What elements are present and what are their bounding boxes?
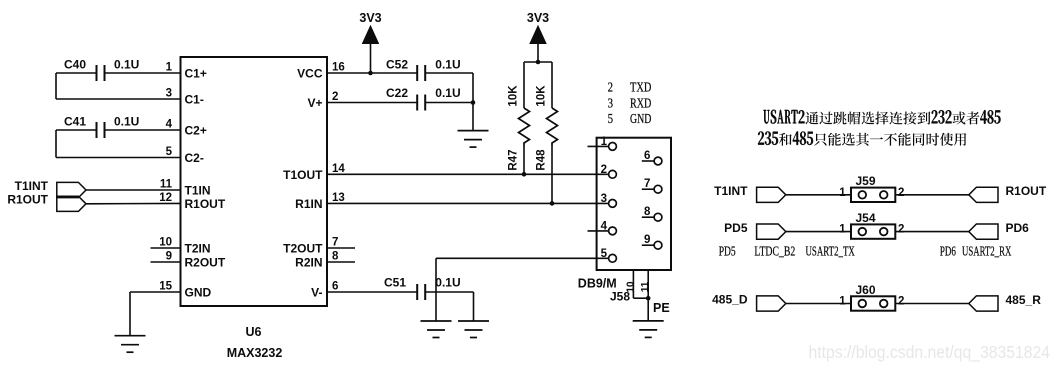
svg-text:1: 1 [166,62,173,74]
svg-text:2: 2 [608,79,613,94]
svg-text:LTDC_B2: LTDC_B2 [754,243,795,258]
svg-text:C52: C52 [386,58,408,72]
svg-text:C1+: C1+ [185,67,207,81]
svg-text:T2IN: T2IN [185,242,211,256]
svg-text:PD5: PD5 [719,243,736,258]
svg-text:C2+: C2+ [185,124,207,138]
svg-text:10: 10 [625,281,636,293]
svg-text:DB9/M: DB9/M [578,277,617,291]
svg-text:R47: R47 [508,149,520,170]
svg-text:0.1U: 0.1U [114,115,139,129]
svg-text:R1OUT: R1OUT [185,197,226,211]
svg-text:GND: GND [185,286,212,300]
svg-text:2: 2 [332,91,338,103]
svg-text:PD6: PD6 [940,243,956,258]
svg-text:7: 7 [644,178,650,190]
svg-text:14: 14 [332,163,345,175]
svg-text:PD6: PD6 [1006,221,1030,235]
svg-text:T1INT: T1INT [15,179,49,193]
svg-text:T2OUT: T2OUT [283,242,323,256]
svg-text:13: 13 [332,192,345,204]
svg-text:485_D: 485_D [712,293,748,307]
svg-text:6: 6 [644,150,650,162]
svg-text:2: 2 [898,187,904,199]
svg-text:0.1U: 0.1U [435,86,460,100]
svg-text:V+: V+ [307,96,322,110]
svg-text:U6: U6 [246,325,262,339]
svg-text:12: 12 [159,192,172,204]
svg-text:C2-: C2- [185,151,204,165]
svg-text:7: 7 [332,237,338,249]
svg-text:VCC: VCC [297,67,323,81]
svg-text:TXD: TXD [630,79,651,94]
svg-text:1: 1 [839,224,846,236]
svg-text:C41: C41 [64,115,86,129]
svg-text:3: 3 [601,193,607,205]
svg-text:3V3: 3V3 [527,11,549,25]
svg-text:8: 8 [332,251,339,263]
svg-text:C51: C51 [384,276,406,290]
svg-text:10K: 10K [508,85,520,107]
svg-text:J60: J60 [856,283,876,297]
svg-text:3: 3 [608,95,614,110]
svg-text:R2OUT: R2OUT [185,256,226,270]
svg-text:GND: GND [630,111,651,126]
svg-text:5: 5 [166,146,173,158]
svg-text:15: 15 [159,281,172,293]
svg-text:11: 11 [640,281,651,292]
svg-text:11: 11 [160,179,173,191]
svg-text:0.1U: 0.1U [114,58,139,72]
svg-text:R2IN: R2IN [295,256,322,270]
svg-text:2: 2 [601,164,607,176]
svg-text:T1INT: T1INT [714,184,748,198]
svg-text:R1OUT: R1OUT [7,193,48,207]
svg-text:J59: J59 [856,174,876,188]
svg-text:0.1U: 0.1U [435,58,460,72]
svg-text:5: 5 [608,111,614,126]
svg-text:9: 9 [166,251,172,263]
svg-text:C22: C22 [386,86,408,100]
svg-text:485_R: 485_R [1006,293,1042,307]
svg-text:9: 9 [644,234,650,246]
svg-text:RXD: RXD [630,95,651,110]
svg-text:J54: J54 [856,211,876,225]
svg-text:6: 6 [332,281,338,293]
svg-text:3: 3 [166,88,172,100]
svg-text:10K: 10K [536,85,548,107]
svg-text:USART2_TX: USART2_TX [806,243,855,258]
svg-text:PE: PE [653,301,670,315]
svg-text:2: 2 [898,224,904,236]
svg-text:0.1U: 0.1U [435,276,460,290]
svg-text:8: 8 [644,206,651,218]
svg-text:1: 1 [839,187,846,199]
svg-text:R1OUT: R1OUT [1006,184,1047,198]
svg-text:V-: V- [311,286,322,300]
svg-text:16: 16 [332,62,345,74]
svg-text:T1IN: T1IN [185,184,211,198]
svg-text:USART2_RX: USART2_RX [962,243,1011,258]
svg-text:1: 1 [839,296,846,308]
svg-text:https://blog.csdn.net/qq_38351: https://blog.csdn.net/qq_38351824 [809,342,1051,362]
svg-text:4: 4 [166,119,173,131]
svg-text:R1IN: R1IN [295,197,322,211]
svg-text:C1-: C1- [185,93,204,107]
svg-text:PD5: PD5 [724,221,748,235]
svg-text:T1OUT: T1OUT [283,168,323,182]
svg-text:10: 10 [159,237,172,249]
svg-text:2: 2 [898,296,904,308]
svg-text:MAX3232: MAX3232 [227,346,283,360]
svg-text:3V3: 3V3 [359,11,381,25]
svg-text:R48: R48 [536,149,548,171]
svg-text:C40: C40 [64,58,86,72]
